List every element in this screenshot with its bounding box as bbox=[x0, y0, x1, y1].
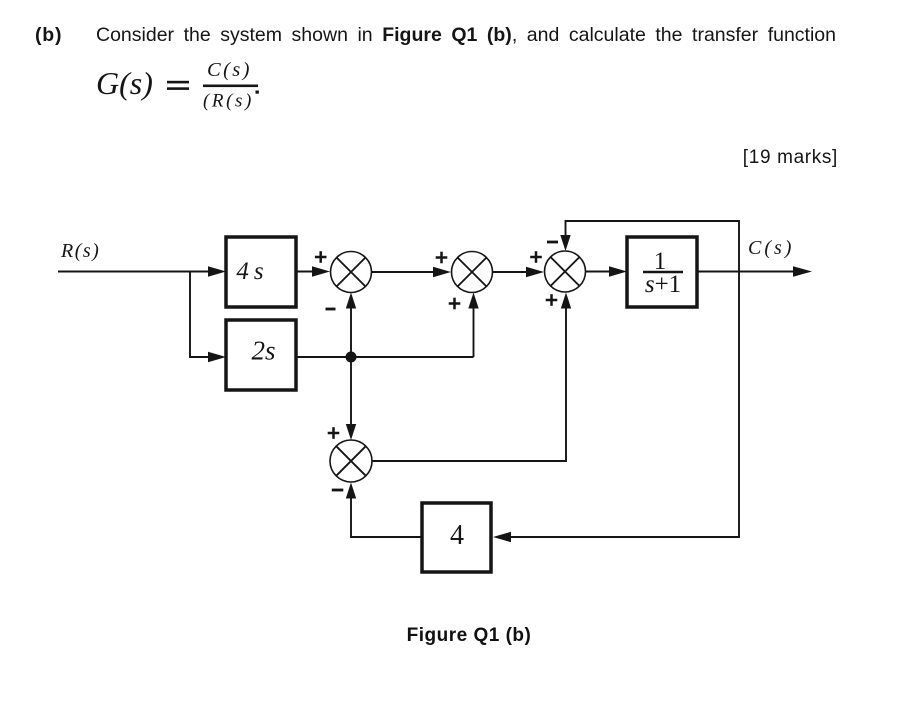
summing junction S3 bbox=[545, 251, 586, 292]
wire: riser up into S2 bottom bbox=[468, 293, 478, 358]
figure caption bbox=[307, 625, 631, 647]
wire: feedback tap up and over into S3 top bbox=[560, 221, 739, 272]
sign + at S2 bottom input bbox=[449, 298, 461, 310]
svg-text:G(s): G(s) bbox=[96, 65, 153, 101]
block G3 value 1/(s+1) bbox=[627, 237, 697, 307]
svg-text:R(s): R(s) bbox=[60, 240, 100, 262]
svg-text:(R(s): (R(s) bbox=[203, 91, 254, 112]
sign - at S3 top input bbox=[547, 241, 558, 244]
wire: output line to C(s) bbox=[697, 266, 812, 276]
summing junction S4 bbox=[330, 440, 372, 482]
wire: dot down into S4 top bbox=[346, 357, 356, 440]
wire: S2 output to S3 bbox=[493, 267, 545, 277]
svg-text:2s: 2s bbox=[251, 336, 275, 366]
svg-text:C(s): C(s) bbox=[748, 237, 794, 259]
wire: branch down from main line to block 2s bbox=[190, 272, 226, 363]
question text line bbox=[35, 24, 62, 47]
marks label bbox=[638, 147, 838, 169]
svg-text:4 s: 4 s bbox=[236, 258, 263, 285]
sign + at S2 left input bbox=[436, 252, 448, 264]
node: junction dot on 2s output bbox=[346, 352, 357, 363]
wire: R(s) input main line with arrow into block 4s bbox=[58, 266, 226, 276]
wire: S1 output to S2 bbox=[372, 267, 452, 277]
sign + at S3 bottom input bbox=[546, 294, 558, 306]
wire: block 4 output left and up into S4 bottom bbox=[346, 483, 422, 538]
block G1 value 4s bbox=[226, 237, 296, 307]
sign + at S3 left input bbox=[530, 251, 542, 263]
wire: feedback tap down and left into block 4 bbox=[493, 272, 739, 543]
block G2 value 2s bbox=[226, 320, 296, 390]
wire: 2s output line to riser of S2 bbox=[296, 356, 474, 358]
sign - at S4 bottom input bbox=[332, 489, 344, 492]
sign + at S1 left input bbox=[315, 251, 327, 263]
svg-text:s+1: s+1 bbox=[645, 271, 681, 298]
wire: 4s output to summing junction S1 bbox=[296, 266, 330, 276]
wire: S4 output right and up into S3 bottom bbox=[372, 293, 571, 462]
wire: dot up into S1 bottom bbox=[346, 293, 356, 358]
svg-text:C(s): C(s) bbox=[207, 59, 252, 81]
equation G(s) bbox=[96, 59, 259, 112]
block H1 value 4 bbox=[422, 503, 491, 572]
wire: S3 output to block 1/(s+1) bbox=[586, 266, 628, 276]
summing junction S1 bbox=[331, 252, 372, 293]
sign + at S4 top input bbox=[328, 427, 340, 439]
sign - at S1 bottom input bbox=[326, 308, 336, 311]
summing junction S2 bbox=[452, 252, 493, 293]
svg-text:4: 4 bbox=[450, 520, 464, 551]
